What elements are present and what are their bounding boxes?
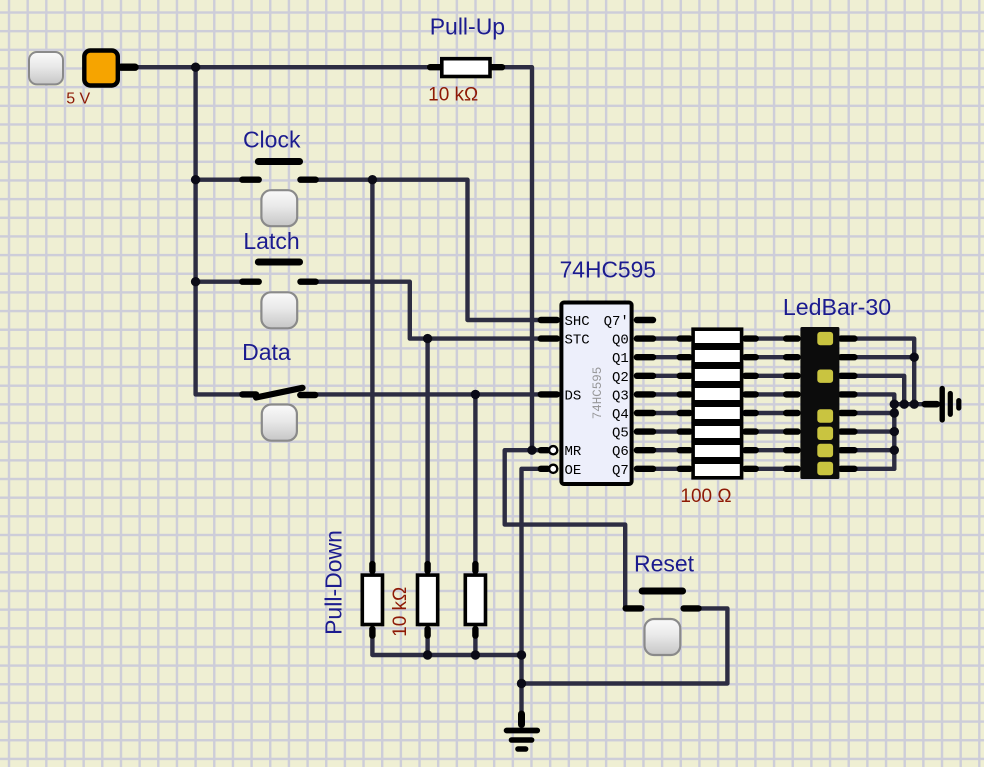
pin stub: STC: [541, 335, 557, 341]
pin stub: bank row 5 right: [745, 410, 755, 416]
wire: Q3 to resistor bank row 4: [655, 392, 680, 396]
wire: resistor row 8 to led bar pin 8: [757, 467, 786, 471]
wire: resistor row 6 to led bar pin 6: [757, 429, 786, 433]
pin stub: ledbar pin 7 left: [786, 447, 797, 453]
pin stub: Q3: [637, 391, 653, 397]
svg-text:SHC: SHC: [565, 314, 590, 330]
pin stub: Q1: [637, 354, 653, 360]
pin stub: bank row 1 left: [680, 335, 690, 341]
svg-text:Q4: Q4: [612, 407, 629, 423]
svg-text:Q1: Q1: [612, 351, 629, 367]
resistor R1 pull-down 10k: [362, 575, 382, 624]
LED window 2: [817, 370, 833, 383]
svg-text:Q2: Q2: [612, 370, 629, 386]
pin stub: ledbar pin 5 right: [841, 410, 854, 416]
junction: R2 on ground bus: [423, 650, 432, 659]
pin stub: SHC: [541, 317, 557, 323]
pin stub: R2 top lead: [424, 564, 430, 571]
junction: rail at latch row: [191, 277, 200, 286]
pin stub: bank row 1 right: [745, 335, 755, 341]
LED window 4: [817, 427, 833, 440]
pushbutton S2 Latch: button cap: [261, 292, 297, 328]
pin stub: ledbar pin 2 right: [841, 354, 854, 360]
junction: ground node b: [900, 400, 909, 409]
resistor R5 100ohm: [693, 348, 742, 364]
svg-text:100 Ω: 100 Ω: [680, 486, 731, 507]
wire: clock node down to pull-down R1: [370, 180, 374, 563]
junction: ground node a: [890, 400, 899, 409]
resistor R7 100ohm: [693, 386, 742, 402]
pushbutton S4 Reset: button cap: [645, 619, 681, 655]
junction: reset return on ground drop: [517, 679, 526, 688]
5V supply P1: [84, 51, 118, 86]
pushbutton (spare, top-left): [29, 52, 63, 84]
pin stub: R3 bottom lead: [472, 629, 478, 636]
wire: Q5 to resistor bank row 6: [655, 429, 680, 433]
svg-text:Clock: Clock: [243, 127, 301, 153]
svg-text:Q3: Q3: [612, 388, 629, 404]
pin stub: Q4: [637, 410, 653, 416]
wire: Q1 to resistor bank row 2: [655, 355, 680, 359]
wire: right ground bus vertical: [892, 404, 896, 469]
resistor R8 100ohm: [693, 405, 742, 421]
pin stub: Q7': [637, 317, 653, 323]
wire: pull-down R2 to ground bus: [425, 637, 429, 655]
svg-text:Pull-Up: Pull-Up: [430, 14, 505, 40]
LED window 3: [817, 409, 833, 422]
pin stub: 5V supply output: [121, 63, 135, 70]
pin stub: clock switch right contact: [301, 176, 316, 182]
pin stub: Q7: [637, 466, 653, 472]
pushbutton S2 Latch: actuator bar: [258, 258, 299, 265]
wire: led bar pin 3 return: [856, 376, 904, 404]
pin stub: bank row 6 right: [745, 428, 755, 434]
pin stub: Q2: [637, 373, 653, 379]
pin stub: ledbar pin 4 left: [786, 391, 797, 397]
svg-text:Q5: Q5: [612, 426, 629, 442]
svg-text:OE: OE: [565, 463, 582, 479]
pin stub: bank row 6 left: [680, 428, 690, 434]
resistor R9 100ohm: [693, 424, 742, 440]
wire: DS node down to pull-down R3: [473, 394, 477, 563]
LED window 5: [817, 444, 833, 457]
wire: resistor row 5 to led bar pin 5: [757, 411, 786, 415]
pushbutton S3 Data button cap: [262, 405, 297, 441]
wire: Q0 to resistor bank row 1: [655, 336, 680, 340]
svg-text:Q7: Q7: [612, 463, 629, 479]
wire: resistor row 3 to led bar pin 3: [757, 374, 786, 378]
wire: resistor row 4 to led bar pin 4: [757, 392, 786, 396]
pin stub: clock switch left contact: [242, 176, 258, 182]
pin stub: ledbar pin 8 right: [841, 466, 854, 472]
wire: resistor row 1 to led bar pin 1: [757, 336, 786, 340]
svg-text:LedBar-30: LedBar-30: [783, 294, 891, 320]
svg-text:DS: DS: [565, 388, 582, 404]
pin stub: bank row 8 right: [745, 466, 755, 472]
pin stub: ledbar pin 4 right: [841, 391, 854, 397]
pin stub: R3 top lead: [472, 564, 478, 571]
ground symbol (right, rotated): [925, 389, 959, 420]
wire: MR node to Reset switch: [505, 450, 626, 606]
pushbutton S4 Reset: actuator bar: [642, 587, 682, 594]
svg-text:Q7': Q7': [604, 314, 629, 330]
wire: clock row branch from rail: [196, 177, 242, 181]
svg-text:Latch: Latch: [243, 228, 299, 254]
resistor R11 100ohm: [693, 462, 742, 478]
pin stub: pull-up resistor left lead: [430, 64, 444, 70]
resistor R6 100ohm: [693, 367, 742, 383]
junction: pin 7 on right bus: [890, 446, 899, 455]
wire: OE pin down to ground bus: [522, 469, 541, 655]
svg-text:Reset: Reset: [634, 551, 695, 577]
junction: rail at clock row: [191, 175, 200, 184]
junction: rail / clock branch: [191, 62, 200, 71]
svg-text:5 V: 5 V: [66, 91, 90, 108]
pin stub: ledbar pin 6 right: [841, 428, 854, 434]
op-amp/IC U1 74HC595 body: [561, 303, 631, 485]
pin stub: bank row 7 right: [745, 447, 755, 453]
pushbutton S3 Data lever: [256, 388, 303, 398]
svg-text:Pull-Down: Pull-Down: [321, 530, 347, 635]
resistor R2 pull-down 10k: [418, 575, 438, 624]
wire: Latch switch to STC pin: [316, 282, 540, 339]
pin stub: ledbar pin 7 right: [841, 447, 854, 453]
pin stub: bank row 3 right: [745, 373, 755, 379]
pin stub: ledbar pin 2 left: [786, 354, 797, 360]
wire: led bar pin 4 return: [856, 394, 894, 404]
pin stub: bank row 4 right: [745, 391, 755, 397]
svg-text:74HC595: 74HC595: [591, 367, 605, 420]
wire: pull-up output down to MR pin: [502, 67, 540, 450]
svg-text:10 kΩ: 10 kΩ: [428, 85, 478, 106]
pin stub: data switch left contact: [242, 391, 256, 397]
pin stub: ledbar pin 5 left: [786, 410, 797, 416]
pin stub: latch switch right contact: [301, 279, 316, 285]
pin stub: ledbar pin 1 right: [841, 335, 854, 341]
junction: OE line on ground bus: [517, 650, 526, 659]
LED window 6: [817, 462, 833, 475]
wire: led bar pin 8 return: [856, 467, 894, 471]
pin stub: bank row 3 left: [680, 373, 690, 379]
pin stub: R2 bottom lead: [424, 629, 430, 636]
wire: 5V supply to pull-up resistor (top rail): [137, 65, 430, 69]
pin stub: pull-up resistor right lead: [488, 64, 502, 70]
resistor R4 100ohm: [693, 329, 742, 345]
pin stub: ledbar pin 6 left: [786, 428, 797, 434]
wire: STC node down to pull-down R2: [425, 339, 429, 563]
wire: Q2 to resistor bank row 3: [655, 374, 680, 378]
wire: resistor row 2 to led bar pin 2: [757, 355, 786, 359]
LED window 1: [817, 332, 833, 345]
pin stub: bank row 5 left: [680, 410, 690, 416]
pin stub: MR: [541, 447, 548, 453]
wire: resistor row 7 to led bar pin 7: [757, 448, 786, 452]
svg-text:Q0: Q0: [612, 333, 629, 349]
pin stub: R1 top lead: [369, 564, 375, 571]
pin stub: Q0: [637, 335, 653, 341]
inversion bubble: OE: [549, 465, 557, 473]
pin stub: OE: [541, 466, 548, 472]
pin stub: Q5: [637, 428, 653, 434]
junction: STC node to R2: [423, 334, 432, 343]
wire: led bar pin 6 return: [856, 429, 894, 433]
pin stub: ledbar pin 8 left: [786, 466, 797, 472]
wire: pull-down R1 to ground bus: [372, 637, 521, 655]
junction: MR node (pull-up rail): [527, 446, 536, 455]
junction: ledbar pin 2 on return bus: [910, 353, 919, 362]
wire: Clock switch to SHC pin: [316, 180, 540, 320]
wire: node to right ground symbol: [894, 402, 923, 406]
pin stub: DS: [541, 391, 557, 397]
wire: Q7 to resistor bank row 8: [655, 467, 680, 471]
pin stub: reset switch left contact: [626, 605, 642, 611]
wire: Reset switch return to ground node: [522, 608, 728, 683]
wire: pull-down R3 to ground bus: [473, 637, 477, 655]
LED bar DIS1 LedBar-30 body: [800, 327, 839, 479]
pushbutton S1 Clock: actuator bar: [258, 158, 299, 165]
wire: 5V rail down the left side to Data switch: [196, 67, 243, 394]
wire: Q6 to resistor bank row 7: [655, 448, 680, 452]
pin stub: reset switch right contact: [684, 605, 699, 611]
pin stub: ledbar pin 3 right: [841, 373, 854, 379]
pin stub: bank row 4 left: [680, 391, 690, 397]
junction: pin 5 on right bus: [890, 408, 899, 417]
junction: clock node to R1: [368, 175, 377, 184]
svg-text:10 kΩ: 10 kΩ: [390, 587, 411, 637]
wire: led bar pin 5 return: [856, 411, 894, 415]
inversion bubble: MR: [549, 446, 557, 454]
pin stub: R1 bottom lead: [369, 629, 375, 636]
resistor R3 pull-down 10k: [465, 575, 485, 624]
pin stub: ledbar pin 1 left: [786, 335, 797, 341]
svg-text:MR: MR: [565, 444, 582, 460]
wire: led bar pin 7 return: [856, 448, 894, 452]
ground symbol (bottom): [507, 714, 538, 749]
junction: DS node to R3: [471, 390, 480, 399]
junction: pin 6 on right bus: [890, 427, 899, 436]
wire: ground bus down to ground symbol: [519, 655, 523, 714]
wire: latch row branch from rail: [196, 280, 242, 284]
pin stub: data switch right contact: [300, 392, 315, 398]
wire: led bar pin 2 return: [856, 355, 914, 359]
junction: ground node c: [910, 400, 919, 409]
pushbutton S1 Clock: button cap: [261, 190, 297, 226]
junction: R3 on ground bus: [471, 650, 480, 659]
pin stub: bank row 8 left: [680, 466, 690, 472]
pin stub: bank row 2 left: [680, 354, 690, 360]
svg-text:Q6: Q6: [612, 444, 629, 460]
svg-text:Data: Data: [242, 339, 291, 365]
pin stub: bank row 7 left: [680, 447, 690, 453]
pin stub: ledbar pin 3 left: [786, 373, 797, 379]
pin stub: Q6: [637, 447, 653, 453]
wire: led bar pin 1 return to ground: [856, 339, 914, 405]
pin stub: bank row 2 right: [745, 354, 755, 360]
svg-text:STC: STC: [565, 333, 590, 349]
pin stub: latch switch left contact: [242, 279, 258, 285]
wire: Data switch to DS pin: [316, 392, 540, 396]
svg-text:74HC595: 74HC595: [560, 257, 656, 283]
wire: Q4 to resistor bank row 5: [655, 411, 680, 415]
resistor R10 100ohm: [693, 443, 742, 459]
resistor R-pullup 10k: [442, 59, 490, 77]
